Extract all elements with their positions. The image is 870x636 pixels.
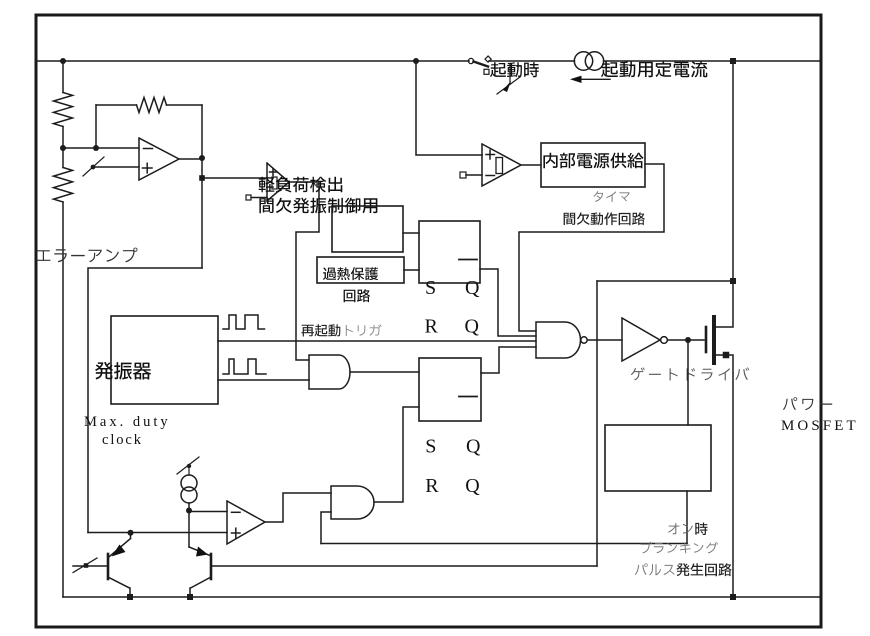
wire U2 output	[289, 182, 319, 360]
wire U4 output to A2	[265, 493, 331, 522]
wire drain sense to divider	[597, 280, 733, 282]
wire feedback right segment	[167, 104, 203, 106]
AND gate A2	[331, 486, 374, 519]
svg-text:MOSFET: MOSFET	[781, 418, 859, 434]
box oscillator	[111, 316, 218, 404]
svg-text:R: R	[425, 475, 439, 497]
wire Q2 base sense	[211, 565, 597, 567]
op-amp U1 error amplifier	[139, 138, 179, 180]
wire A1 output to FF2	[350, 371, 419, 373]
NAND gate N1	[536, 322, 580, 358]
node top rail / startup comparator tap	[413, 58, 419, 64]
svg-text:clock: clock	[102, 432, 143, 448]
node compare rail / Q1	[128, 530, 134, 536]
transistor Q2 base bar	[210, 554, 213, 579]
transistor M1 channel bar	[712, 317, 716, 363]
wire block to FF1 S	[403, 232, 419, 234]
label restart trigger	[302, 324, 341, 336]
svg-text:Q: Q	[465, 277, 480, 299]
wire output to light-load comparator	[202, 177, 267, 179]
wire feedback down to output	[201, 105, 203, 158]
node divider tap	[60, 145, 66, 151]
wire blanking output down	[686, 491, 688, 544]
node M1 source	[723, 352, 730, 359]
label oscillator	[95, 362, 151, 380]
comparator U3 startup	[482, 144, 521, 186]
wire I2 down to Q2	[188, 511, 190, 548]
clock waveform 1	[223, 315, 265, 329]
node error amp output	[199, 155, 205, 161]
label error amp	[37, 248, 138, 263]
transistor Q1 collector	[108, 577, 130, 588]
transistor Q2 emitter	[189, 547, 210, 556]
wire oscillator clock output	[218, 379, 309, 381]
transistor Q2 collector	[191, 577, 212, 588]
box blanking pulse generator	[605, 425, 711, 491]
svg-text:R: R	[425, 316, 439, 338]
resistor R2	[54, 168, 73, 203]
terminal U3 reference	[460, 172, 466, 178]
node I2 output	[188, 503, 190, 511]
label blanking	[641, 542, 719, 554]
wire M1 source	[716, 355, 733, 597]
current source I2	[181, 475, 197, 491]
label internal supply	[543, 153, 643, 169]
comparator U2 light-load detect	[267, 163, 289, 201]
FF1 Qbar overline	[459, 259, 477, 261]
label thermal protection	[323, 267, 378, 280]
transistor Q1 emitter	[130, 533, 132, 539]
Q1 base adjustable marker	[84, 563, 89, 568]
label thermal protection line2	[344, 289, 371, 302]
switch startup square	[484, 69, 489, 74]
transistor Q1 base bar	[107, 554, 110, 579]
node Q1 collector rail	[127, 594, 133, 600]
wire oscillator max-duty clock output	[218, 340, 536, 342]
wire feedback up	[95, 105, 97, 148]
label startup current	[601, 61, 707, 77]
switch startup contact	[468, 58, 473, 63]
label power line1	[783, 397, 832, 410]
wire startup tap down	[416, 61, 482, 155]
wire U3 output	[521, 164, 541, 166]
transistor M1 power MOSFET gate bar	[705, 327, 708, 352]
wire sense column	[596, 281, 598, 566]
svg-text:Q: Q	[465, 475, 480, 497]
node bottom rail MOSFET source	[730, 594, 736, 600]
wire U1 output stub	[179, 158, 202, 160]
label gate driver	[631, 367, 749, 380]
inverter gate driver	[622, 318, 660, 361]
terminal U2 reference input	[246, 195, 251, 200]
wire NAND output to inverter	[588, 339, 622, 341]
label light load detect	[259, 177, 343, 193]
transistor Q1 base input	[73, 565, 108, 567]
comparator U4 current sense	[227, 501, 265, 544]
node top rail / divider tap	[60, 58, 66, 64]
box internal supply	[541, 143, 645, 187]
reference adjustable marker	[91, 165, 96, 170]
node output to comparator tap	[199, 175, 205, 181]
wire blanking to A2	[321, 543, 687, 545]
current source I1 startup	[574, 52, 592, 70]
wire M1 drain	[716, 61, 733, 327]
resistor R3 feedback	[137, 98, 167, 113]
resistor R1	[54, 93, 73, 127]
svg-text:S: S	[425, 436, 436, 458]
wire R2 down to bottom rail	[62, 202, 64, 597]
current arrow I1	[577, 78, 610, 80]
wire divider top	[62, 61, 64, 93]
node gate / blanking tap	[685, 337, 691, 343]
switch startup blade	[474, 62, 489, 67]
node top rail / MOSFET drain column	[730, 58, 736, 64]
node feedback tap	[93, 145, 99, 151]
wire A2 output to FF2 R	[374, 407, 419, 502]
wire bottom compare rail	[88, 532, 227, 534]
svg-text:Q: Q	[465, 316, 480, 338]
wire output feedback to bottom	[88, 268, 202, 533]
AND gate A1	[309, 355, 350, 389]
FF2 Qbar overline	[459, 396, 477, 398]
wire top supply rail	[37, 60, 469, 62]
flip-flop FF1 box	[419, 221, 480, 283]
node Q2 collector rail	[187, 594, 193, 600]
wire gate to blanking box	[687, 340, 689, 425]
node drain sense tap	[730, 278, 736, 284]
wire R1 to tap	[62, 127, 64, 149]
label startup switch	[490, 62, 539, 77]
box thermal protection	[317, 257, 404, 283]
label pulse gen	[635, 563, 675, 575]
svg-text:Q: Q	[466, 436, 481, 458]
label intermittent osc control	[259, 198, 377, 214]
wire bottom rail	[63, 596, 820, 598]
wire FF2 output to NAND	[481, 347, 536, 373]
switch startup diamond	[485, 56, 491, 62]
svg-text:Max. duty: Max. duty	[84, 414, 171, 430]
wire timer loop to NAND	[519, 164, 664, 331]
label on-time	[668, 523, 693, 534]
box intermittent control block	[332, 206, 403, 252]
wire I2 to comparator	[189, 511, 227, 513]
label timer	[593, 191, 629, 202]
wire tap to R2	[62, 148, 64, 168]
switch control arrow	[509, 64, 511, 83]
wire divider tap to inverting input	[63, 147, 139, 149]
flip-flop FF2 box	[419, 358, 481, 421]
current source I2 marker	[188, 466, 190, 475]
label intermittent circuit	[564, 212, 645, 225]
clock waveform 2	[223, 359, 266, 374]
wire inverter to MOSFET gate	[668, 339, 704, 341]
wire FF1 Q output to NAND	[480, 269, 536, 336]
wire thermal box to FF1	[404, 269, 419, 271]
svg-text:S: S	[425, 277, 436, 299]
wire output down	[201, 158, 203, 268]
wire non-inverting input reference	[93, 166, 139, 168]
wire A2 input blanking	[321, 512, 331, 544]
wire feedback left segment	[96, 104, 137, 106]
